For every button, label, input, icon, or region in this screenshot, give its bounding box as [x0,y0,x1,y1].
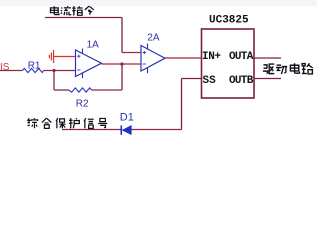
wire: protection signal to diode [62,129,121,131]
resistor R1 [23,68,44,72]
label 综合保护信号 (protection signal) [28,118,108,128]
svg-text:SS: SS [203,75,217,87]
IC U1 UC3825 [202,15,255,99]
svg-text:OUTA: OUTA [229,51,254,63]
wire: 1A output to 2A - input [102,63,142,65]
wire: R2 left lead [54,89,69,91]
wire: ground to 1A + input [54,56,76,58]
svg-text:IS: IS [0,62,10,73]
wire: SS vertical down [181,79,183,130]
svg-text:IN+: IN+ [202,51,221,63]
op-amp 1A [76,39,102,78]
label 电流指令 (current command) [50,6,93,15]
wire: tap vertical down to R2 [53,71,55,91]
diode D1 [120,112,134,135]
svg-text:OUTB: OUTB [229,75,254,87]
label 驱动电路 (drive circuit) [263,63,313,74]
wire: feedback vertical [121,64,123,90]
svg-text:UC3825: UC3825 [209,15,249,27]
wire: 2A output to UC3825 IN+ [165,57,202,59]
svg-text:D1: D1 [120,112,134,124]
junction node at R1/R2 tap [52,69,55,72]
junction node on output wire [120,62,123,65]
wire: R2 right lead [92,89,123,91]
top light tint band [0,0,317,6]
resistor R2 [69,88,92,92]
wire: IS to R1 [0,70,23,72]
svg-text:2A: 2A [147,33,160,44]
op-amp 2A [141,33,165,74]
svg-text:1A: 1A [87,39,100,50]
wire: R1 to 1A inverting input [44,70,76,72]
wire: command into 2A + input [122,52,141,54]
wire: command vertical drop [121,18,123,53]
wire: diode to SS corner [131,129,181,131]
svg-text:R2: R2 [76,99,89,110]
wire: OUTA stub [254,57,281,59]
ground symbol [49,50,53,63]
wire: command underline [45,17,122,19]
wire: SS pin lead [182,78,202,80]
svg-text:R1: R1 [28,61,41,72]
wire: OUTB stub [254,78,281,80]
